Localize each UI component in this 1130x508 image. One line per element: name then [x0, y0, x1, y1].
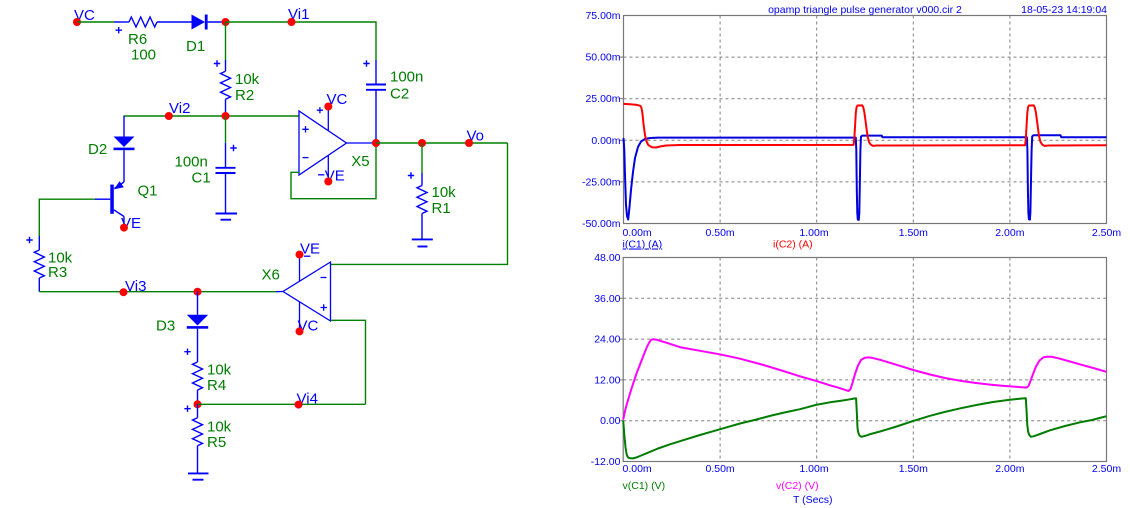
label R3 10k [48, 250, 73, 282]
svg-text:opamp triangle pulse generator: opamp triangle pulse generator v000.cir … [768, 4, 962, 16]
svg-text:75.00m: 75.00m [585, 10, 620, 22]
svg-text:D1: D1 [186, 38, 205, 55]
node VE under Q1 [120, 215, 141, 232]
label R2 10k [235, 71, 260, 104]
bottom plot axis ticks [619, 298, 623, 420]
svg-text:50.00m: 50.00m [585, 52, 620, 64]
svg-text:v(C2) (V): v(C2) (V) [776, 480, 819, 492]
svg-text:25.00m: 25.00m [585, 93, 620, 105]
svg-text:2.50m: 2.50m [1092, 227, 1121, 239]
svg-text:v(C1) (V): v(C1) (V) [623, 480, 666, 492]
node Vi1 [288, 6, 310, 26]
label C1 100n [175, 154, 211, 187]
ground under C1 [216, 214, 238, 220]
svg-text:0.00m: 0.00m [591, 135, 620, 147]
curve i(C1) blue [624, 135, 1107, 220]
svg-text:100n: 100n [175, 154, 208, 171]
svg-text:R3: R3 [48, 264, 67, 281]
op-amp X5 [299, 107, 376, 182]
svg-text:100: 100 [131, 47, 156, 64]
svg-text:R1: R1 [432, 200, 451, 217]
label C2 100n [390, 69, 423, 103]
diode D1 [192, 15, 208, 30]
svg-text:-12.00: -12.00 [591, 456, 621, 468]
svg-text:2.50m: 2.50m [1092, 463, 1121, 475]
node junction R4/R5/Vi4 [194, 400, 202, 408]
capacitor C2 [363, 60, 386, 143]
svg-text:100n: 100n [390, 69, 423, 86]
svg-text:1.00m: 1.00m [799, 463, 828, 475]
svg-text:C1: C1 [192, 170, 211, 187]
svg-text:24.00: 24.00 [594, 334, 620, 346]
label R4 10k [207, 362, 232, 395]
top plot axis ticks [620, 57, 624, 182]
svg-text:10k: 10k [207, 419, 232, 436]
resistor R5 [184, 404, 202, 473]
svg-text:48.00: 48.00 [594, 252, 620, 264]
node Vi2 [165, 100, 191, 120]
ground under R1 [412, 239, 433, 246]
svg-text:10k: 10k [235, 71, 260, 88]
svg-text:1.50m: 1.50m [899, 227, 928, 239]
wire top rail to C2 [226, 22, 377, 60]
node VE pin X5 [324, 168, 344, 186]
top plot y labels [582, 10, 621, 230]
svg-text:i(C1) (A): i(C1) (A) [623, 239, 663, 251]
capacitor C1 [216, 116, 237, 213]
legend i(C1) (A) [623, 239, 663, 251]
resistor R1 [408, 143, 427, 239]
svg-text:0.50m: 0.50m [706, 227, 735, 239]
svg-text:Q1: Q1 [138, 183, 158, 200]
svg-text:10k: 10k [207, 362, 232, 379]
svg-text:1.50m: 1.50m [899, 463, 928, 475]
node junction R1 [418, 139, 426, 147]
curve i(C2) red [624, 104, 1107, 148]
node junction R2/C1 [222, 112, 230, 120]
svg-text:12.00: 12.00 [594, 374, 620, 386]
wire Vo to X6 inverting input [331, 143, 508, 264]
label R1 10k [432, 184, 457, 217]
wire X6 noninverting input to Vi4 [331, 320, 366, 404]
wire output to Vo [376, 142, 508, 144]
svg-text:0.00: 0.00 [600, 415, 621, 427]
svg-text:R4: R4 [207, 377, 226, 394]
node output junction X5 [372, 139, 380, 147]
svg-text:T (Secs): T (Secs) [793, 494, 832, 506]
label R5 10k [207, 419, 232, 452]
wire node Vi2 line [124, 115, 300, 117]
top plot x labels [623, 227, 1122, 239]
node Vi3 [120, 278, 147, 296]
resistor R2 [214, 60, 231, 116]
svg-text:2.00m: 2.00m [995, 463, 1024, 475]
svg-text:0.50m: 0.50m [706, 463, 735, 475]
svg-text:0.00m: 0.00m [623, 463, 652, 475]
svg-text:X6: X6 [262, 267, 280, 284]
top plot frame [624, 16, 1107, 224]
top plot gridlines [624, 16, 1107, 224]
curve v(C2) magenta [623, 339, 1106, 419]
label R6 100 [128, 31, 156, 64]
bottom plot gridlines [623, 258, 1106, 462]
resistor R6 [114, 17, 192, 33]
diode D3 [187, 292, 208, 362]
svg-text:0.00m: 0.00m [623, 227, 652, 239]
bottom plot x labels [623, 463, 1122, 475]
svg-text:R2: R2 [235, 87, 254, 104]
svg-text:C2: C2 [390, 86, 409, 103]
svg-text:X5: X5 [351, 153, 369, 170]
svg-text:10k: 10k [432, 184, 457, 201]
svg-text:1.00m: 1.00m [799, 227, 828, 239]
svg-text:-25.00m: -25.00m [582, 176, 621, 188]
ground under R5 [188, 473, 209, 479]
svg-text:36.00: 36.00 [594, 293, 620, 305]
wire feedback X5 [291, 143, 376, 199]
resistor R4 [184, 349, 202, 405]
resistor R3 [26, 236, 44, 292]
bottom plot frame [623, 258, 1106, 462]
node junction D3 [194, 288, 202, 296]
svg-text:2.00m: 2.00m [995, 227, 1024, 239]
svg-text:-50.00m: -50.00m [582, 218, 621, 230]
svg-text:18-05-23 14:19:04: 18-05-23 14:19:04 [1021, 4, 1107, 16]
wire Vi4 line [198, 403, 366, 405]
svg-text:D3: D3 [156, 318, 175, 335]
node VC pin X6 [296, 318, 319, 336]
transistor Q1 [95, 181, 124, 224]
svg-text:Vi3: Vi3 [125, 278, 146, 295]
svg-text:R5: R5 [207, 434, 226, 451]
svg-text:i(C2) (A): i(C2) (A) [773, 239, 813, 251]
node junction D1/R2 [222, 18, 230, 26]
node VE pin X6 [296, 241, 321, 259]
wire base to R3 [39, 199, 95, 236]
bottom plot y labels [591, 252, 621, 468]
svg-text:D2: D2 [88, 141, 107, 158]
node Vo [465, 128, 484, 148]
curve v(C1) green [623, 398, 1106, 458]
node VC [73, 7, 95, 26]
node Vi4 [295, 391, 318, 409]
diode D2 [114, 116, 135, 182]
svg-text:R6: R6 [128, 31, 147, 48]
wire VC to R6 [77, 21, 114, 23]
op-amp X6 [276, 255, 331, 332]
wire Vi3 line [39, 291, 276, 293]
node VC pin X5 [324, 91, 347, 111]
wire junction down to R2 [225, 22, 227, 60]
